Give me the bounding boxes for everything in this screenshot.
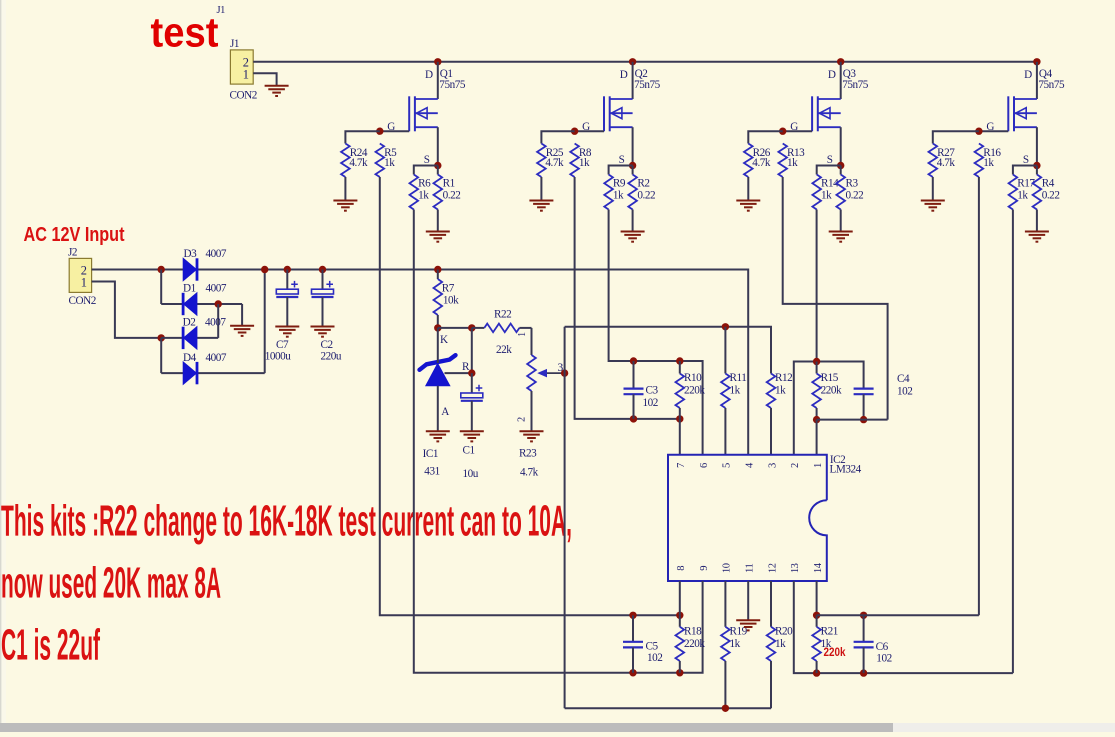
svg-text:2: 2 <box>790 463 801 468</box>
wire Q2 source <box>632 127 634 165</box>
svg-text:C7: C7 <box>276 339 289 351</box>
svg-text:R18: R18 <box>684 626 702 638</box>
node R10 top <box>676 357 683 364</box>
wire source to R14 <box>817 166 841 175</box>
svg-text:K: K <box>440 334 448 346</box>
wire D2 anode riser to D1 junction <box>217 304 219 338</box>
resistor R19 1k <box>724 581 726 627</box>
wire R6 to pin9 rail <box>414 210 703 673</box>
wire Q2 gate <box>575 130 604 132</box>
svg-text:6: 6 <box>699 463 710 468</box>
svg-text:1: 1 <box>517 332 528 337</box>
ground under C1 <box>460 431 484 441</box>
svg-text:R1: R1 <box>443 177 455 189</box>
svg-text:D: D <box>1024 69 1032 81</box>
svg-text:2: 2 <box>516 417 527 422</box>
svg-text:11: 11 <box>745 563 756 572</box>
svg-text:S: S <box>619 154 625 166</box>
wire R1 to ground <box>437 210 439 231</box>
svg-text:75n75: 75n75 <box>1038 79 1065 91</box>
wire D2 row <box>161 337 218 339</box>
diode D1 1N4007 <box>183 293 197 315</box>
svg-text:C1 is 22uf: C1 is 22uf <box>1 620 100 669</box>
resistor R5 1k <box>376 144 385 178</box>
node D1 anode junction <box>215 300 222 307</box>
capacitor C3 102 <box>633 361 635 389</box>
wire bus to C7 <box>286 270 288 290</box>
svg-text:102: 102 <box>643 397 658 409</box>
transistor Q4 (75n75 MOSFET) <box>1008 96 1037 131</box>
node pin8 / R18 top <box>676 612 683 619</box>
wire Q4 gate <box>979 130 1008 132</box>
ground under R4 <box>1025 232 1049 242</box>
wire R25 to ground <box>540 177 542 200</box>
svg-text:220k: 220k <box>684 385 705 397</box>
svg-text:This kits :R22 change to 16K-1: This kits :R22 change to 16K-18K test cu… <box>1 497 572 546</box>
wire setpoint to R11/R12 tops <box>565 327 771 374</box>
wire gate to R24 <box>345 131 379 143</box>
node C6 bottom <box>860 669 867 676</box>
svg-text:R3: R3 <box>846 177 859 189</box>
svg-text:C3: C3 <box>646 385 659 397</box>
svg-text:R2: R2 <box>637 177 649 189</box>
wire R2 to ground <box>632 210 634 231</box>
ground under 431 <box>426 431 450 441</box>
wire R8 to pin7 rail <box>575 177 680 419</box>
node Q1 gate <box>376 128 383 135</box>
resistor R20 1k <box>770 581 772 627</box>
wire J2 pin1 to bridge node B <box>92 282 162 338</box>
wire D1 row <box>161 303 242 305</box>
svg-text:102: 102 <box>876 652 891 664</box>
wire ground stub down <box>241 304 243 325</box>
resistor R8 1k <box>570 144 579 178</box>
svg-text:S: S <box>827 154 833 166</box>
svg-text:13: 13 <box>790 563 801 573</box>
svg-text:0.22: 0.22 <box>637 189 655 201</box>
svg-text:now used 20K max 8A: now used 20K max 8A <box>1 559 221 608</box>
svg-text:102: 102 <box>647 652 662 664</box>
wire R26 to ground <box>747 177 749 200</box>
ground pin11 <box>736 620 760 630</box>
resistor R10 220k <box>676 374 685 409</box>
node R15 bottom <box>813 416 820 423</box>
ground under R24 <box>333 201 357 211</box>
node R19 bottom <box>722 705 729 712</box>
wire pin7 riser <box>679 419 681 455</box>
wire D4 row <box>161 372 265 374</box>
svg-text:D: D <box>425 69 433 81</box>
resistor R25 4.7k <box>537 144 546 178</box>
wire R24 to ground <box>344 177 346 200</box>
wire pin2 rail <box>794 362 864 455</box>
wire C2 to ground <box>322 297 324 326</box>
svg-text:1k: 1k <box>730 385 741 397</box>
wire R4 to ground <box>1036 210 1038 231</box>
svg-text:75n75: 75n75 <box>842 79 869 91</box>
svg-text:75n75: 75n75 <box>439 79 466 91</box>
ground under R1 <box>426 232 450 242</box>
resistor R12 1k <box>767 374 776 409</box>
svg-text:4.7k: 4.7k <box>752 157 771 169</box>
svg-text:CON2: CON2 <box>69 295 96 307</box>
resistor R18 220k <box>679 615 681 627</box>
ground under R27 <box>921 201 945 211</box>
wire Q4 drain <box>1036 62 1038 99</box>
wire setpoint bottom rail <box>565 707 771 709</box>
wire R13 to pin1 rail <box>783 177 888 420</box>
svg-text:9: 9 <box>699 566 710 571</box>
svg-text:4.7k: 4.7k <box>349 157 368 169</box>
svg-text:R10: R10 <box>684 372 702 384</box>
svg-text:22k: 22k <box>496 344 512 356</box>
svg-text:R4: R4 <box>1042 177 1055 189</box>
resistor R3 0.22 <box>840 166 842 175</box>
wire +supply top rail from J1 pin2 <box>253 61 1037 63</box>
svg-text:4007: 4007 <box>206 352 227 364</box>
svg-text:D: D <box>828 69 836 81</box>
ground under R26 <box>736 201 760 211</box>
svg-text:1k: 1k <box>418 189 429 201</box>
wire Q2 drain <box>632 62 634 99</box>
svg-text:1k: 1k <box>1017 189 1028 201</box>
wire R9 to pin6 rail <box>609 210 703 455</box>
svg-text:R20: R20 <box>775 626 793 638</box>
svg-text:IC1: IC1 <box>423 448 438 460</box>
node Q3 source <box>837 162 844 169</box>
svg-text:AC 12V Input: AC 12V Input <box>24 224 125 246</box>
wire R17 riser <box>1012 210 1014 674</box>
svg-text:1k: 1k <box>775 638 786 650</box>
svg-text:220u: 220u <box>321 350 342 362</box>
node C5 top <box>629 612 636 619</box>
svg-text:J1: J1 <box>217 5 226 16</box>
svg-text:4007: 4007 <box>206 248 227 260</box>
wire C1 to ground <box>471 401 473 431</box>
svg-text:220k: 220k <box>824 647 847 659</box>
node R18 bottom <box>676 669 683 676</box>
node Q3 gate <box>779 128 786 135</box>
svg-text:C2: C2 <box>321 339 333 351</box>
node Q4 gate <box>975 128 982 135</box>
svg-text:R23: R23 <box>519 448 537 460</box>
wire Q1 drain <box>437 62 439 99</box>
resistor R24 4.7k <box>341 144 350 178</box>
svg-text:14: 14 <box>813 562 824 573</box>
svg-text:12: 12 <box>767 563 778 573</box>
svg-text:R6: R6 <box>418 177 431 189</box>
diode D2 1N4007 <box>183 327 197 349</box>
svg-text:R12: R12 <box>775 372 792 384</box>
svg-text:10: 10 <box>722 563 733 573</box>
wire R3 to ground <box>840 210 842 231</box>
svg-text:C1: C1 <box>463 444 475 456</box>
node C5 bottom <box>629 669 636 676</box>
wire R27 to ground <box>932 177 934 200</box>
svg-text:LM324: LM324 <box>830 464 862 476</box>
wire R14 to R15 top <box>816 210 818 362</box>
diode D3 1N4007 <box>183 258 197 280</box>
svg-text:102: 102 <box>897 386 912 398</box>
node Q4 source <box>1033 162 1040 169</box>
node Q2 source <box>629 162 636 169</box>
svg-text:1k: 1k <box>821 189 832 201</box>
svg-text:1k: 1k <box>384 157 395 169</box>
transistor Q1 (75n75 MOSFET) <box>409 96 438 131</box>
wire AC2 down to D1 row <box>160 270 162 305</box>
svg-text:R21: R21 <box>821 626 838 638</box>
wire 431 ref pin <box>445 372 472 374</box>
svg-text:A: A <box>441 406 449 418</box>
wire 431 anode to ground <box>437 386 439 431</box>
wire gate to R25 <box>541 131 574 143</box>
capacitor C4 102 <box>854 389 874 395</box>
op IC1 TL431 <box>420 355 456 386</box>
wire pin14 stub <box>816 581 818 615</box>
svg-text:R22: R22 <box>494 309 511 321</box>
node C7 on bus <box>284 266 291 273</box>
resistor R7 10k <box>437 270 439 280</box>
svg-text:D3: D3 <box>184 248 198 260</box>
svg-text:431: 431 <box>424 466 439 478</box>
svg-text:D2: D2 <box>183 317 196 329</box>
node C3 top <box>630 357 637 364</box>
wire AC1 down to D4 row <box>160 338 162 373</box>
node R10 bottom <box>676 415 683 422</box>
wire Q4 source <box>1036 127 1038 165</box>
svg-text:1k: 1k <box>775 385 786 397</box>
svg-text:10u: 10u <box>463 468 479 480</box>
wire pin1 rail <box>817 419 888 421</box>
resistor R26 4.7k <box>744 144 753 178</box>
wire Q1 gate <box>380 130 409 132</box>
wire source to R9 <box>609 166 633 175</box>
node Q2 drain on rail <box>629 58 636 65</box>
ground under R2 <box>621 232 645 242</box>
svg-text:D1: D1 <box>183 283 196 295</box>
ground under C2 <box>311 327 335 337</box>
resistor R2 0.22 <box>632 166 634 175</box>
svg-text:1000u: 1000u <box>265 350 292 362</box>
svg-text:4.7k: 4.7k <box>545 157 564 169</box>
wire gate to R26 <box>748 131 782 143</box>
svg-text:S: S <box>1023 154 1029 166</box>
ground under R23 <box>520 431 544 441</box>
wire K to R22 <box>438 327 472 329</box>
resistor R14 1k <box>812 175 821 210</box>
resistor R4 0.22 <box>1036 166 1038 175</box>
svg-text:1: 1 <box>243 68 249 82</box>
wire gate to R27 <box>933 131 979 143</box>
wire D4 cathode riser to + node <box>264 270 266 374</box>
svg-text:S: S <box>424 154 430 166</box>
svg-text:1k: 1k <box>613 189 624 201</box>
potentiometer R23 4.7k <box>531 328 533 355</box>
svg-text:0.22: 0.22 <box>846 189 864 201</box>
wire branch down to R node <box>471 328 473 373</box>
wire Q3 source <box>840 127 842 165</box>
ground under C7 <box>275 327 299 337</box>
resistor R13 1k <box>778 144 787 178</box>
node bridge AC2 <box>158 266 165 273</box>
svg-text:test: test <box>151 8 219 55</box>
svg-text:4.7k: 4.7k <box>937 157 956 169</box>
node wiper on setpoint riser <box>561 369 568 376</box>
node Q3 drain on rail <box>837 58 844 65</box>
wire 431 cathode <box>437 328 439 363</box>
svg-text:CON2: CON2 <box>230 90 257 102</box>
resistor R21 1k <box>816 615 818 627</box>
svg-text:1: 1 <box>81 276 87 290</box>
wire R5 to pin8 rail <box>380 177 680 615</box>
diode D4 1N4007 <box>183 362 197 384</box>
node R7 top on bus <box>434 266 441 273</box>
svg-text:R15: R15 <box>821 372 839 384</box>
svg-text:D: D <box>620 69 628 81</box>
svg-text:C5: C5 <box>646 641 659 653</box>
capacitor C7 1000u <box>276 281 298 297</box>
svg-text:R11: R11 <box>730 372 747 384</box>
wire source to R17 <box>1013 166 1037 175</box>
node C2 on bus <box>319 266 326 273</box>
svg-text:10k: 10k <box>443 295 459 307</box>
svg-text:1k: 1k <box>579 157 590 169</box>
node R11 top <box>722 323 729 330</box>
svg-text:D4: D4 <box>183 352 197 364</box>
capacitor C6 102 <box>863 615 865 642</box>
connector J2 <box>69 258 91 292</box>
wire R16 riser <box>978 177 980 615</box>
svg-text:1k: 1k <box>787 157 798 169</box>
resistor R1 0.22 <box>437 166 439 175</box>
node R15 top <box>813 358 820 365</box>
op-amp IC2 LM324 body <box>668 455 827 581</box>
node bridge + output <box>261 266 268 273</box>
wire pin13 to bottom-right rail <box>794 581 1013 673</box>
node R22 left / C1 branch <box>468 324 475 331</box>
node Q2 gate <box>571 128 578 135</box>
svg-text:220k: 220k <box>684 638 705 650</box>
wire down to R11 <box>724 327 726 374</box>
node bridge AC1 <box>158 334 165 341</box>
svg-text:0.22: 0.22 <box>1042 189 1060 201</box>
wire pin8 stub <box>679 581 681 615</box>
node C6 top <box>860 612 867 619</box>
capacitor C1 10u <box>471 373 473 393</box>
transistor Q2 (75n75 MOSFET) <box>604 96 633 131</box>
resistor R17 1k <box>1009 175 1018 210</box>
svg-text:1k: 1k <box>730 638 741 650</box>
capacitor C5 102 <box>632 615 634 642</box>
ground bridge <box>230 326 254 336</box>
wire Q1 source <box>437 127 439 165</box>
wire Q3 drain <box>840 62 842 99</box>
wire pin14 rail to R16 <box>817 614 979 616</box>
svg-text:3: 3 <box>767 463 778 468</box>
wire C7 to ground <box>286 297 288 326</box>
resistor R22 22k <box>472 327 485 329</box>
wire J1 pin1 to ground <box>253 73 276 85</box>
svg-text:4007: 4007 <box>206 283 227 295</box>
svg-text:R7: R7 <box>442 282 455 294</box>
node C3 bottom <box>630 415 637 422</box>
svg-text:220k: 220k <box>821 385 842 397</box>
transistor Q3 (75n75 MOSFET) <box>812 96 841 131</box>
node K (431 cathode) <box>434 324 441 331</box>
resistor R15 220k <box>816 362 818 374</box>
svg-text:4.7k: 4.7k <box>520 467 539 479</box>
resistor R9 1k <box>604 175 613 210</box>
wire source to R6 <box>414 166 438 175</box>
ground under R3 <box>829 232 853 242</box>
node R (ref) / C1 top <box>468 369 475 376</box>
wire setpoint riser <box>564 327 566 709</box>
svg-text:1k: 1k <box>983 157 994 169</box>
wire pin11 stub <box>747 581 749 620</box>
svg-text:7: 7 <box>676 463 687 468</box>
svg-text:4007: 4007 <box>205 317 226 329</box>
pot wiper arrow <box>539 370 565 377</box>
capacitor C2 220u <box>312 281 334 297</box>
svg-text:75n75: 75n75 <box>634 79 661 91</box>
connector J1 <box>230 50 253 84</box>
node C4 bottom <box>860 416 867 423</box>
svg-text:C6: C6 <box>876 641 889 653</box>
resistor R11 1k <box>721 374 730 409</box>
resistor R6 1k <box>410 175 419 210</box>
node R21 bottom <box>813 669 820 676</box>
svg-text:J1: J1 <box>230 38 239 50</box>
resistor R16 1k <box>975 144 984 178</box>
wire pin1 riser <box>816 420 818 455</box>
svg-text:8: 8 <box>676 566 687 571</box>
node R21 top <box>813 612 820 619</box>
svg-text:1: 1 <box>813 463 824 468</box>
svg-text:J2: J2 <box>68 246 77 258</box>
wire pot to ground <box>531 391 533 431</box>
ground under R25 <box>529 201 553 211</box>
svg-text:5: 5 <box>722 463 733 468</box>
svg-text:R9: R9 <box>613 177 626 189</box>
wire +12V bus (bridge output to pin 4 riser) <box>92 270 749 455</box>
node Q4 drain on rail <box>1033 58 1040 65</box>
node Q1 source <box>434 162 441 169</box>
svg-text:C4: C4 <box>897 373 910 385</box>
ground J1 <box>265 86 289 96</box>
wire bus to C2 <box>322 270 324 290</box>
wire Q3 gate <box>783 130 812 132</box>
node Q1 drain on rail <box>434 58 441 65</box>
resistor R27 4.7k <box>929 144 938 178</box>
svg-text:0.22: 0.22 <box>443 189 461 201</box>
